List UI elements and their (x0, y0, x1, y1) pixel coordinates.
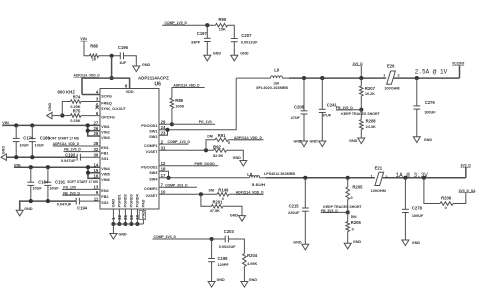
wire COMP_3V3_D to C203 (153, 238, 226, 240)
resistor R89 (170, 98, 174, 108)
svg-text:R74: R74 (73, 94, 81, 99)
wire ground rail upper (2, 156, 77, 158)
inductor L8 (250, 176, 260, 178)
svg-text:17: 17 (161, 173, 166, 178)
svg-text:82.5K: 82.5K (213, 154, 223, 158)
svg-text:SCFG: SCFG (101, 94, 112, 98)
svg-text:R90: R90 (219, 17, 227, 22)
svg-text:PAD: PAD (142, 199, 146, 207)
ground below C199 (208, 282, 215, 288)
wire R201 to ground (223, 206, 242, 215)
wire pin 19 to ground bus (136, 209, 138, 224)
svg-text:18: 18 (161, 166, 166, 171)
wire C194 to SS2 (79, 200, 100, 202)
capacitor C241 (320, 76, 324, 80)
wire R88 to C196 (99, 55, 121, 57)
svg-text:FB_1V0_D: FB_1V0_D (336, 106, 353, 110)
svg-text:SW4: SW4 (149, 178, 158, 182)
svg-text:24: 24 (161, 125, 166, 130)
resistor R209 branch (422, 176, 426, 180)
ground left arrow upper (1, 154, 6, 160)
resistor R91 (DNI) (215, 138, 228, 142)
svg-text:16.2K: 16.2K (365, 92, 375, 96)
wire EN1 (53, 145, 100, 147)
svg-text:27: 27 (94, 121, 99, 126)
svg-text:0.0022UF: 0.0022UF (219, 245, 236, 249)
node FB_3V3_D (346, 210, 350, 214)
svg-text:ADP2114ACPZ: ADP2114ACPZ (138, 76, 169, 81)
svg-text:11: 11 (94, 196, 99, 201)
svg-text:E21: E21 (375, 166, 383, 171)
svg-text:GND: GND (310, 139, 319, 143)
svg-text:ADP2114_VDD_D: ADP2114_VDD_D (236, 191, 264, 195)
svg-text:2.5A @ 1V: 2.5A @ 1V (415, 68, 448, 75)
svg-text:10UF: 10UF (32, 187, 42, 191)
wire C203 to R204 (228, 239, 244, 254)
svg-text:PGND3: PGND3 (130, 194, 134, 207)
svg-text:C207: C207 (241, 33, 252, 38)
svg-text:ADP2114_VDD_D: ADP2114_VDD_D (173, 83, 200, 87)
wire SW2 join SW1 (159, 130, 168, 135)
resistor R201 (211, 205, 223, 209)
ground below C278 (402, 240, 409, 246)
svg-text:GND: GND (112, 199, 116, 208)
wire R89 top (172, 88, 205, 98)
node COMP_1V0_D at pin 2 (159, 143, 189, 145)
svg-text:4.99K: 4.99K (247, 262, 257, 266)
ferrite bead E21 (375, 172, 384, 185)
capacitor C208 (302, 76, 306, 80)
wire FB1 (64, 151, 101, 153)
node 3V3_D (465, 167, 467, 178)
svg-text:R201: R201 (213, 200, 224, 205)
svg-text:2: 2 (398, 73, 400, 77)
svg-text:KEEP TRACES SHORT: KEEP TRACES SHORT (341, 112, 380, 116)
wire R91 to ADP2114_VDD_D (228, 139, 263, 141)
capacitor C215 (303, 176, 307, 180)
svg-text:0.047UF: 0.047UF (61, 159, 76, 163)
svg-text:C194: C194 (77, 206, 88, 211)
capacitor C184 (29, 165, 33, 169)
ground below R201 (239, 216, 246, 222)
svg-text:SYNC_CLKOUT: SYNC_CLKOUT (101, 107, 126, 111)
svg-text:PGND1: PGND1 (118, 194, 122, 207)
svg-text:C278: C278 (412, 206, 423, 211)
node VCCINT (459, 66, 461, 78)
wire pin 20 to ground bus (130, 209, 132, 224)
svg-text:VIN: VIN (80, 36, 87, 41)
svg-text:GND: GND (293, 139, 302, 143)
svg-text:10UF: 10UF (19, 143, 29, 147)
wire FB2 (62, 194, 100, 196)
svg-text:23: 23 (161, 130, 166, 135)
capacitor C203 (224, 236, 226, 243)
ground below C279 (413, 137, 420, 143)
svg-text:R91: R91 (218, 133, 226, 138)
wire R74 to FREQ pin (81, 101, 100, 103)
svg-text:1V0_D: 1V0_D (352, 62, 363, 66)
svg-text:PGOOD2: PGOOD2 (141, 166, 157, 170)
svg-text:C203: C203 (224, 229, 235, 234)
svg-text:GND: GND (119, 233, 128, 237)
ground below C215 (302, 244, 309, 250)
resistor R205 (feedback jumper) (346, 176, 350, 180)
svg-text:220UF: 220UF (288, 211, 300, 215)
svg-text:5.6UH: 5.6UH (252, 183, 266, 187)
svg-text:R88: R88 (90, 44, 98, 49)
capacitor C199 (208, 258, 215, 260)
svg-text:PWR_GOOD: PWR_GOOD (195, 162, 216, 166)
svg-text:C199: C199 (218, 256, 229, 261)
svg-text:31: 31 (161, 146, 166, 151)
svg-text:PGOOD1: PGOOD1 (141, 124, 157, 128)
wire SW4 to L8 (159, 177, 250, 179)
svg-text:C208: C208 (294, 104, 305, 109)
svg-text:13: 13 (94, 185, 99, 190)
svg-text:EN2: EN2 (101, 189, 108, 193)
svg-text:R149: R149 (218, 187, 229, 192)
svg-text:15: 15 (94, 168, 99, 173)
svg-text:PGND4: PGND4 (136, 193, 140, 207)
svg-text:47UF: 47UF (291, 116, 301, 120)
svg-text:V2SET: V2SET (145, 194, 158, 198)
wire R92 to ground (227, 150, 244, 160)
wire V2SET (159, 193, 217, 195)
ground below R92 (240, 161, 247, 167)
svg-text:GND: GND (142, 63, 151, 67)
resistor R149 (DNI) (217, 193, 229, 197)
svg-text:SW2: SW2 (149, 135, 157, 139)
wire VIN rail to VIN4 (14, 166, 100, 168)
wire VIN down to R88 (84, 41, 90, 56)
svg-text:R92: R92 (213, 144, 221, 149)
svg-text:3V3_D: 3V3_D (461, 163, 472, 167)
svg-text:FREQ: FREQ (101, 101, 112, 105)
svg-text:L9: L9 (274, 68, 280, 73)
resistor R204 (243, 254, 247, 267)
wire VDD net to IC pin 8 and SCFG (111, 56, 113, 78)
wire R149 to ADP2114_VDD_D (229, 193, 264, 195)
wire bus down to ground (112, 224, 114, 234)
svg-text:0.25K: 0.25K (70, 119, 80, 123)
capacitor C193 (soft start 1) (76, 154, 78, 161)
wire VIN2 VIN3 feed (88, 125, 100, 136)
svg-text:VIN2: VIN2 (101, 131, 109, 135)
svg-text:GND: GND (217, 278, 226, 282)
svg-text:GND: GND (240, 51, 249, 55)
ground below C208 (301, 141, 308, 147)
svg-text:C279: C279 (425, 100, 436, 105)
svg-text:PG_1V0: PG_1V0 (199, 120, 212, 124)
svg-text:29: 29 (161, 120, 166, 125)
ground below IC (110, 234, 117, 240)
wire pin 22 to ground bus (118, 209, 120, 224)
wire R75 to OPCFG pin (81, 115, 100, 117)
svg-text:GND: GND (2, 146, 6, 155)
svg-text:GND: GND (213, 51, 222, 55)
wire pin 1 to ground bus (112, 209, 114, 224)
svg-text:COMP2: COMP2 (144, 187, 158, 191)
svg-text:FB_1V0_D: FB_1V0_D (64, 148, 81, 152)
wire C199 to ground (211, 262, 213, 282)
svg-text:C193: C193 (65, 152, 76, 157)
svg-text:COMP_3V3_D: COMP_3V3_D (165, 183, 188, 187)
svg-text:GND: GND (230, 213, 239, 217)
svg-text:R208: R208 (366, 119, 377, 124)
resistor R75 (70, 114, 81, 118)
svg-text:100OHM: 100OHM (371, 189, 386, 193)
wire C193 to SS1 (80, 156, 100, 158)
svg-text:VCCINT: VCCINT (452, 61, 466, 65)
wire L9 to VCCINT rail (283, 77, 290, 79)
svg-text:C197: C197 (197, 31, 208, 36)
ground below C207 (231, 55, 238, 61)
svg-text:0: 0 (351, 196, 353, 200)
wire pin 21 to ground bus (124, 209, 126, 224)
wire SW3 join SW4 (159, 171, 169, 178)
svg-text:R209: R209 (441, 195, 452, 200)
svg-text:SS2: SS2 (101, 201, 108, 205)
ground below R204 (241, 282, 248, 288)
svg-text:OPCFG: OPCFG (101, 115, 115, 119)
capacitor C279 (415, 76, 419, 80)
node FB_1V0_D (359, 108, 363, 112)
junction at C197 (205, 23, 209, 27)
svg-text:GND: GND (349, 139, 358, 143)
svg-text:VIN: VIN (2, 120, 9, 125)
capacitor C207 (231, 38, 238, 40)
svg-text:15K: 15K (219, 28, 226, 32)
svg-text:10UF: 10UF (35, 143, 45, 147)
svg-text:SOFT START 17 MS: SOFT START 17 MS (67, 180, 99, 184)
svg-text:VIN4: VIN4 (101, 167, 110, 171)
svg-text:FB2: FB2 (101, 195, 108, 199)
capacitor C176 (14, 123, 18, 127)
svg-text:ADP2114_VDD_D: ADP2114_VDD_D (53, 142, 80, 146)
svg-text:DNI: DNI (209, 188, 215, 192)
ground below R206 (344, 243, 351, 249)
svg-text:L8: L8 (247, 172, 253, 177)
wire V1SET (159, 149, 214, 151)
svg-text:GND: GND (233, 156, 242, 160)
svg-text:LPS4012-562MRB: LPS4012-562MRB (264, 171, 295, 176)
ground below R208 (358, 138, 365, 144)
svg-text:C196: C196 (118, 45, 129, 50)
svg-text:GND: GND (48, 102, 52, 111)
svg-text:U6: U6 (155, 82, 162, 88)
wire COMP_1V0_D to R90 (162, 24, 216, 26)
capacitor C196 (119, 52, 121, 59)
no-connect X on SYNC_CLKOUT (96, 106, 99, 109)
wire C207 to ground (233, 42, 235, 56)
svg-text:FB1: FB1 (101, 151, 108, 155)
svg-text:1: 1 (383, 73, 385, 77)
svg-text:EN1: EN1 (101, 146, 108, 150)
svg-text:VIN6: VIN6 (101, 178, 109, 182)
svg-text:SW3: SW3 (149, 171, 157, 175)
wire V2SET to R201 (201, 194, 212, 206)
junction VDD branch (110, 54, 114, 58)
wire R74-R75 vertical (62, 102, 70, 116)
svg-text:R206: R206 (351, 220, 362, 225)
svg-text:100OHM: 100OHM (384, 87, 399, 91)
resistor R92 (214, 149, 227, 153)
svg-text:PAD: PAD (140, 211, 145, 219)
svg-text:3V3_D_SA: 3V3_D_SA (459, 189, 477, 193)
svg-text:47UF: 47UF (322, 114, 332, 118)
svg-text:PGND2: PGND2 (124, 194, 128, 207)
resistor R207 (360, 78, 362, 86)
svg-text:33PF: 33PF (191, 41, 201, 45)
wire VIN5 VIN6 feed (88, 167, 100, 178)
svg-text:DNI: DNI (351, 215, 357, 219)
svg-text:SW1: SW1 (149, 130, 157, 134)
svg-text:10: 10 (92, 58, 96, 62)
svg-text:VDD: VDD (126, 90, 134, 94)
svg-text:GND: GND (249, 278, 258, 282)
resistor R88 (90, 54, 99, 58)
svg-text:32: 32 (94, 147, 99, 152)
svg-text:VIN1: VIN1 (101, 125, 109, 129)
svg-text:R89: R89 (175, 98, 183, 103)
wire ground bus (113, 223, 143, 225)
svg-text:C215: C215 (289, 204, 300, 209)
svg-text:XFL4020-102MEB: XFL4020-102MEB (256, 85, 288, 90)
ground below C197 (204, 55, 211, 61)
wire R90 to C207 (228, 25, 235, 38)
svg-text:28: 28 (94, 141, 99, 146)
svg-text:VIN5: VIN5 (101, 173, 109, 177)
svg-text:FB_3V3_D: FB_3V3_D (321, 209, 338, 213)
wire C197 top (206, 25, 208, 38)
svg-text:100UF: 100UF (424, 110, 436, 114)
node COMP_3V3_D at pin 7 (159, 186, 197, 188)
junction at C199 (210, 237, 214, 241)
svg-text:10: 10 (161, 190, 166, 195)
wire C199 top (211, 239, 213, 259)
svg-text:SS1: SS1 (101, 157, 108, 161)
wire C197 to ground (206, 42, 208, 56)
node PWR_GOOD at PGOOD2 (159, 165, 218, 167)
svg-text:V1SET: V1SET (145, 150, 158, 154)
svg-text:GND: GND (424, 138, 433, 142)
svg-text:COMP_1V0_D: COMP_1V0_D (168, 140, 191, 144)
svg-text:SOFT START 17 MS: SOFT START 17 MS (48, 136, 80, 140)
svg-text:120PF: 120PF (218, 263, 230, 267)
wire R206 to ground (347, 232, 349, 244)
svg-text:10UF: 10UF (49, 187, 59, 191)
wire ground rail lower (20, 201, 76, 210)
svg-text:30: 30 (94, 152, 99, 157)
ground left of R75 (47, 112, 52, 118)
wire SW1 to L9 riser (159, 78, 236, 130)
svg-text:0: 0 (228, 141, 230, 145)
wire PAD pin to ground bus (142, 209, 144, 224)
wire L8 to 3V3 rail (260, 177, 267, 179)
svg-text:GND: GND (353, 240, 362, 244)
svg-text:R205: R205 (352, 185, 363, 190)
capacitor C191 (46, 165, 50, 169)
svg-text:R207: R207 (365, 86, 376, 91)
svg-text:26: 26 (94, 126, 99, 131)
svg-text:C191: C191 (55, 179, 66, 184)
svg-text:0: 0 (445, 206, 447, 210)
svg-text:0.047UF: 0.047UF (57, 203, 72, 207)
svg-text:VIN3: VIN3 (101, 136, 109, 140)
capacitor C278 (403, 176, 407, 180)
svg-text:R75: R75 (73, 109, 81, 114)
svg-text:KEEP TRACES SHORT: KEEP TRACES SHORT (323, 205, 362, 209)
resistor R74 (70, 100, 81, 104)
svg-text:12: 12 (161, 161, 166, 166)
svg-text:1: 1 (371, 175, 373, 179)
svg-text:24.3K: 24.3K (366, 125, 376, 129)
ground below C196 (133, 66, 140, 72)
wire VIN rail to VIN1 (2, 124, 100, 126)
svg-text:100UF: 100UF (412, 214, 424, 218)
svg-text:COMP1: COMP1 (144, 144, 158, 148)
capacitor C194 (soft start 2) (75, 198, 77, 205)
resistor R208 (360, 110, 362, 120)
svg-text:16: 16 (94, 174, 99, 179)
ferrite bead E26 (387, 71, 396, 84)
svg-text:0.0012UF: 0.0012UF (241, 41, 258, 45)
ground below lower rail (16, 210, 23, 216)
svg-text:ADP2114_VDD_D: ADP2114_VDD_D (74, 74, 101, 78)
capacitor C197 (204, 37, 211, 39)
wire to left ground (52, 115, 63, 117)
resistor R206 (347, 212, 349, 221)
svg-text:25: 25 (94, 131, 99, 136)
svg-text:GND: GND (24, 207, 33, 211)
wire R89 to PGOOD1 (171, 108, 173, 124)
wire R208 to ground (360, 130, 362, 139)
junction R75 gnd (60, 114, 64, 118)
wire EN2 (62, 188, 100, 190)
svg-text:GND: GND (412, 241, 421, 245)
svg-text:100K: 100K (175, 105, 184, 109)
svg-text:14: 14 (94, 162, 99, 167)
wire R209 to 3V3_D_SA (453, 192, 466, 203)
svg-text:E26: E26 (387, 64, 395, 69)
svg-text:1UF: 1UF (119, 61, 127, 65)
wire C196 to ground (124, 56, 137, 66)
svg-text:COMP_1V0_D: COMP_1V0_D (165, 21, 188, 25)
wire V1SET to R91 (206, 140, 215, 151)
svg-text:R204: R204 (247, 253, 258, 258)
wire R204 to ground (243, 267, 245, 282)
svg-text:2: 2 (385, 175, 387, 179)
svg-text:47.5K: 47.5K (210, 209, 220, 213)
svg-text:ADP2114_VDD_D: ADP2114_VDD_D (234, 136, 262, 140)
svg-text:0: 0 (352, 228, 354, 232)
svg-text:GND: GND (293, 240, 302, 244)
ground below C241 (319, 141, 326, 147)
regulator IC U6 ADP2114ACPZ body (100, 89, 159, 210)
svg-text:DNI: DNI (207, 135, 213, 139)
wire riser to L9 (236, 77, 270, 79)
inductor L9 (271, 76, 283, 78)
capacitor C180 (30, 123, 34, 127)
resistor R90 (216, 23, 228, 27)
wire PGOOD1 / node PG_1V0 (159, 123, 215, 125)
